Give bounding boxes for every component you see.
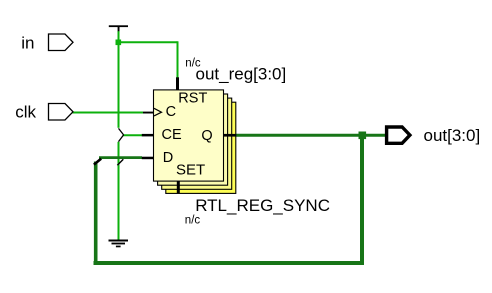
svg-text:out[3:0]: out[3:0]	[424, 126, 481, 145]
svg-text:clk: clk	[15, 103, 36, 122]
svg-text:CE: CE	[162, 127, 182, 143]
svg-text:in: in	[21, 33, 34, 52]
svg-text:SET: SET	[176, 162, 205, 179]
svg-text:n/c: n/c	[185, 58, 201, 70]
svg-text:Q: Q	[201, 128, 212, 144]
svg-text:RST: RST	[178, 91, 207, 107]
svg-text:RTL_REG_SYNC: RTL_REG_SYNC	[195, 196, 330, 215]
svg-text:out_reg[3:0]: out_reg[3:0]	[196, 65, 287, 84]
svg-text:n/c: n/c	[185, 215, 201, 227]
svg-text:C: C	[166, 104, 176, 120]
svg-text:D: D	[163, 150, 173, 166]
